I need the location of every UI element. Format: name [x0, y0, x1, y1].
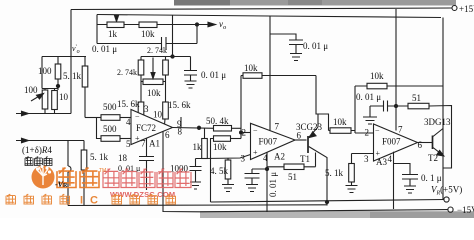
resistor 1k (A1 load)	[204, 128, 206, 158]
pin 7 line and capacitor 18	[139, 139, 154, 191]
wire drop to lower 500	[97, 118, 102, 139]
ground (0.1u cap)	[404, 186, 416, 193]
capacitor 0.01u (A2 V- decoupling)	[245, 169, 268, 185]
svg-text:2. 74k: 2. 74k	[117, 68, 137, 77]
node comp/V+ dot	[394, 104, 397, 107]
svg-text:5. 1k: 5. 1k	[325, 168, 344, 178]
svg-text:IC: IC	[80, 195, 105, 207]
svg-text:4: 4	[388, 154, 393, 164]
wire A2 feedback to T1 emitter	[316, 76, 329, 131]
resistor 5.1k (upper right bridge arm)	[84, 57, 86, 118]
wire A3 V+ line from rail1	[395, 9, 397, 131]
wire VR(+5V) net	[211, 200, 445, 203]
ground (A2 V+ cap)	[290, 54, 302, 61]
watermark quanqiu zuida IC caigou wangzhan	[6, 194, 70, 204]
pin 6 line to -15V wire	[163, 132, 200, 212]
svg-text:500: 500	[103, 102, 117, 112]
potentiometer 100 (zero adjust)	[42, 90, 48, 109]
ground (4.5k)	[222, 185, 234, 192]
pin 2 stub A3	[355, 131, 374, 134]
node junction V+ and bias network	[171, 55, 174, 58]
svg-text:0. 01 μ: 0. 01 μ	[201, 70, 226, 80]
svg-text:(1+δ)R4: (1+δ)R4	[22, 145, 52, 155]
svg-text:F007: F007	[382, 137, 401, 147]
svg-text:A2: A2	[274, 152, 285, 162]
ground (A2 V- cap)	[246, 185, 258, 192]
resistor 500 (lower, to A1 pin5)	[101, 136, 120, 142]
wire A1 V+ line from rail2	[172, 15, 174, 57]
svg-text:1k: 1k	[108, 29, 118, 39]
capacitor 0.01u (A2 V+ decoupling)	[289, 40, 303, 54]
svg-text:+: +	[253, 148, 258, 157]
svg-text:3DG13: 3DG13	[424, 117, 451, 127]
svg-text:+: +	[135, 134, 140, 143]
resistor 50.4k (A2 input from A1 out)	[214, 126, 232, 132]
node junction vo/cap	[195, 23, 198, 26]
svg-text:18: 18	[118, 153, 128, 163]
svg-text:15. 6k: 15. 6k	[168, 100, 191, 110]
svg-text:4: 4	[126, 117, 131, 127]
wire rail2 left drop to divider	[96, 15, 98, 44]
node bridge mid junction	[56, 84, 59, 87]
svg-text:7: 7	[141, 139, 146, 149]
svg-text:4: 4	[263, 153, 268, 163]
node A1 output junction	[197, 126, 200, 129]
svg-text:6: 6	[418, 140, 423, 150]
wire A3 output to T2 base	[418, 142, 433, 144]
resistor 100 (upper left bridge arm)	[57, 57, 59, 86]
svg-text:FC72: FC72	[136, 123, 156, 133]
resistor 51 (T1 collector load)	[267, 153, 316, 167]
wire pot1k wiper arrow from rail2	[116, 15, 118, 20]
label sensor	[25, 157, 52, 166]
svg-text:1k: 1k	[193, 142, 203, 152]
wire A1 output	[173, 127, 215, 130]
wire A3 inverting vertical	[354, 86, 356, 131]
wire +15V rail1	[71, 8, 452, 10]
wire 5.1k bottom to 500s	[85, 117, 101, 119]
resistor 2.74k (right)	[165, 57, 167, 82]
svg-text:A1: A1	[149, 139, 160, 149]
resistor 10k (T1 emitter to A3)	[329, 130, 356, 132]
wire T1 emitter drop	[317, 114, 319, 127]
capacitor 0.1u (A3 V- decoupling)	[402, 175, 418, 187]
wire A2 V+ line from rail2	[269, 16, 271, 131]
svg-text:51: 51	[288, 172, 297, 182]
transistor T1 3CG23 base bar	[307, 136, 309, 153]
svg-text:500: 500	[103, 124, 117, 134]
wire A1 RC node to A2 +input	[196, 155, 251, 159]
resistor 5.1k (A3 +input to gnd)	[352, 154, 374, 164]
svg-text:5. 1k: 5. 1k	[90, 152, 109, 162]
svg-text:5: 5	[126, 139, 131, 149]
svg-text:−: −	[375, 126, 380, 135]
wire A2 inverting node vertical	[240, 76, 242, 139]
svg-text:TM: TM	[99, 168, 106, 174]
resistor 1k (pot in output divider)	[97, 24, 139, 26]
svg-text:0. 1 μ: 0. 1 μ	[421, 173, 442, 183]
resistor 51 (A3 comp)	[396, 106, 452, 169]
bottom grey scan band	[200, 211, 474, 218]
svg-text:−: −	[253, 126, 258, 135]
svg-text:100: 100	[38, 66, 52, 76]
svg-text:50. 4k: 50. 4k	[206, 116, 229, 126]
capacitor 0.01u (across divider)	[162, 37, 167, 50]
wire pin4 jog to 0.1u cap	[394, 164, 411, 175]
svg-text:6: 6	[297, 131, 302, 141]
resistor 10k (A3 feedback)	[367, 83, 387, 89]
resistor 15.6k (left)	[140, 82, 142, 120]
svg-text:15. 6k: 15. 6k	[117, 99, 140, 109]
wire A2 output to T1 base	[294, 139, 307, 141]
wire bias network top	[160, 56, 191, 58]
watermark dianzishichangwang	[103, 169, 191, 188]
svg-text:7: 7	[398, 125, 403, 135]
ground (bias cap)	[185, 81, 197, 88]
node A2 pin2 junction	[240, 131, 243, 134]
svg-text:A3: A3	[376, 157, 387, 167]
resistor 10 (bridge arm)	[52, 91, 58, 110]
T1 collector lead	[309, 147, 327, 206]
svg-text:−: −	[135, 112, 140, 121]
resistor 15.6k (right)	[165, 82, 166, 125]
resistor 10k (A2 feedback)	[241, 75, 316, 77]
wire -15V net	[200, 210, 448, 212]
wire bridge mid row	[42, 85, 58, 90]
resistor 10k (A2 input from VR)	[214, 136, 231, 142]
watermark weiku text	[57, 168, 99, 188]
svg-text:2: 2	[242, 128, 247, 138]
svg-text:0. 01 μ: 0. 01 μ	[303, 41, 328, 51]
resistor 5.1k (lower, sensor bias)	[83, 141, 85, 206]
T1 emitter lead with arrow	[309, 127, 318, 137]
node A2 pin4 cap junction	[265, 167, 268, 170]
svg-text:4. 5k: 4. 5k	[210, 166, 229, 176]
svg-text:6: 6	[165, 130, 170, 140]
svg-text:−15V: −15V	[457, 205, 474, 215]
svg-text:10k: 10k	[147, 88, 161, 98]
ground (1000 cap)	[190, 182, 201, 189]
wire A3 feedback 10k row	[355, 85, 443, 87]
wire bridge left column down	[41, 57, 43, 89]
node +15V terminal	[452, 6, 457, 11]
svg-text:0. 01 μ: 0. 01 μ	[92, 44, 117, 54]
svg-text:0. 01 μ: 0. 01 μ	[268, 172, 278, 197]
svg-text:10k: 10k	[141, 29, 155, 39]
transistor T2 3DG13 base bar	[432, 136, 434, 150]
svg-text:2. 74k: 2. 74k	[147, 46, 167, 55]
op-amp A2 F007	[251, 123, 296, 159]
node VR terminal	[444, 197, 449, 202]
top grey scan band	[174, 0, 456, 6]
svg-text:7: 7	[275, 122, 280, 132]
wire vo' vertical line	[70, 10, 72, 114]
svg-text:10k: 10k	[244, 63, 258, 73]
svg-text:T2: T2	[428, 153, 438, 163]
wire sensor lead 2 with arrow	[16, 140, 84, 142]
ground (comp cap)	[363, 117, 377, 124]
wire -VR drop line	[67, 141, 69, 206]
svg-text:8: 8	[178, 127, 183, 137]
svg-text:3: 3	[241, 154, 246, 164]
wire V+ decoupling jog	[270, 34, 296, 40]
svg-text:F007: F007	[259, 137, 278, 147]
resistor 4.5k	[227, 158, 229, 184]
wire rail2	[97, 15, 441, 18]
svg-text:5. 1k: 5. 1k	[63, 71, 82, 81]
wire comp cap left to ground	[369, 106, 371, 117]
svg-text:10k: 10k	[213, 142, 227, 152]
capacitor 0.01u (A3 comp)	[370, 101, 396, 112]
pin 9 stub	[180, 117, 182, 128]
pin 4 line A2 to -15V	[266, 152, 268, 212]
node -15V terminal	[448, 207, 453, 212]
wire sensor lead 1 with arrow	[16, 113, 71, 115]
node VR junction T1	[325, 200, 328, 203]
T2 emitter lead with arrow to VR	[433, 148, 443, 156]
svg-text:10: 10	[153, 110, 163, 120]
svg-text:10: 10	[59, 92, 69, 102]
resistor 2.74k (left)	[141, 57, 160, 61]
watermark logo circle	[32, 166, 55, 189]
svg-text:T1: T1	[300, 154, 310, 164]
wire vo output with arrow	[157, 24, 213, 26]
resistor 10k (output divider)	[139, 22, 157, 28]
capacitor 0.01u (bias decoupling)	[184, 57, 197, 82]
svg-text:51: 51	[412, 93, 421, 103]
ground (A3 5.1k)	[346, 186, 358, 193]
pin 4 line A3 to -15V	[393, 152, 395, 209]
svg-text:0. 01 μ: 0. 01 μ	[356, 92, 381, 102]
T2 collector lead to +15	[433, 129, 443, 137]
op-amp A1 FC72	[131, 110, 173, 145]
svg-text:+15V: +15V	[459, 4, 474, 14]
capacitor 1000	[190, 159, 202, 183]
svg-text:100: 100	[24, 85, 38, 95]
svg-text:3CG23: 3CG23	[296, 122, 323, 132]
wire rail2 right drop	[442, 18, 444, 200]
resistor 500 (upper, to A1 pin4)	[101, 115, 120, 121]
wire cap branch under divider	[97, 25, 197, 44]
svg-text:10k: 10k	[333, 117, 347, 127]
wire bridge top	[42, 56, 86, 58]
potentiometer 10k (gain trim) with wiper	[143, 79, 163, 85]
wire -VR bottom wire	[68, 204, 327, 207]
svg-text:3: 3	[364, 154, 369, 164]
pin 2 stub A2	[241, 132, 251, 134]
svg-text:2: 2	[365, 128, 370, 138]
svg-text:3: 3	[144, 104, 149, 114]
op-amp A3 F007	[374, 124, 418, 161]
wire 10k left drop to VR wire	[211, 139, 214, 203]
svg-text:10k: 10k	[370, 71, 384, 81]
